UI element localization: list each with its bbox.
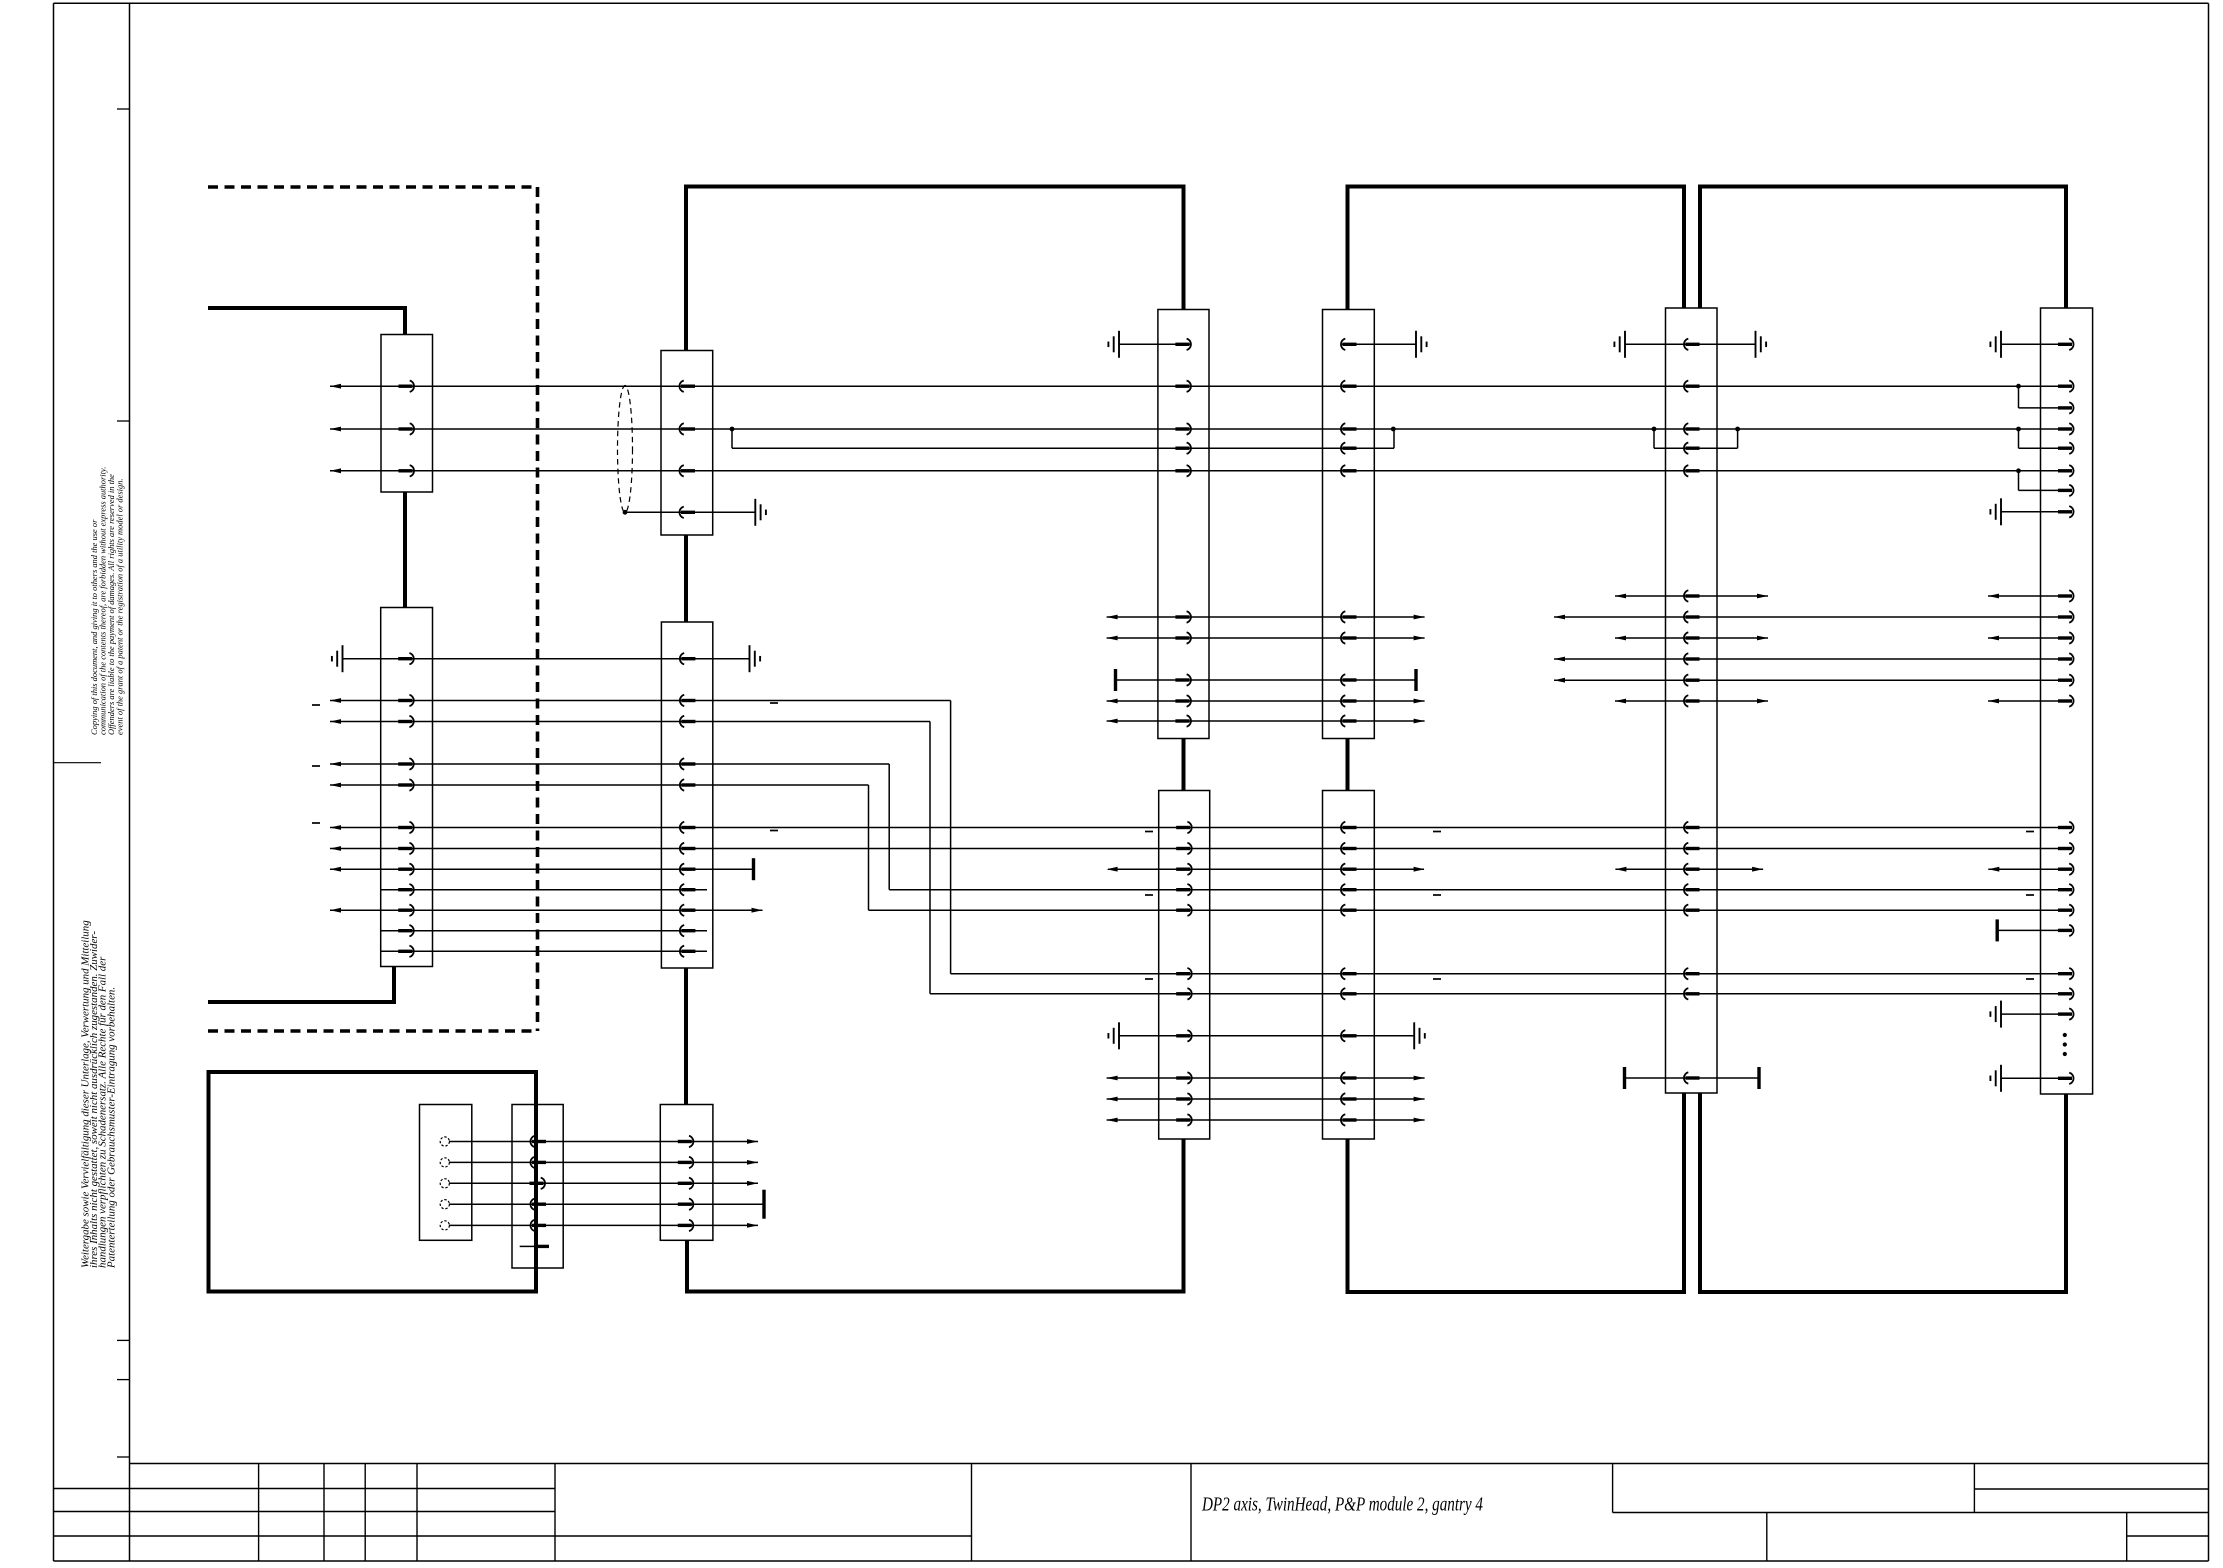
- svg-text:event of the grant of a patent: event of the grant of a patent or the re…: [114, 478, 124, 735]
- svg-text:Patenterteilung oder Gebrauchs: Patenterteilung oder Gebrauchsmuster-Ein…: [105, 987, 117, 1269]
- svg-text:DP2 axis, TwinHead, P&P module: DP2 axis, TwinHead, P&P module 2, gantry…: [1201, 1495, 1483, 1516]
